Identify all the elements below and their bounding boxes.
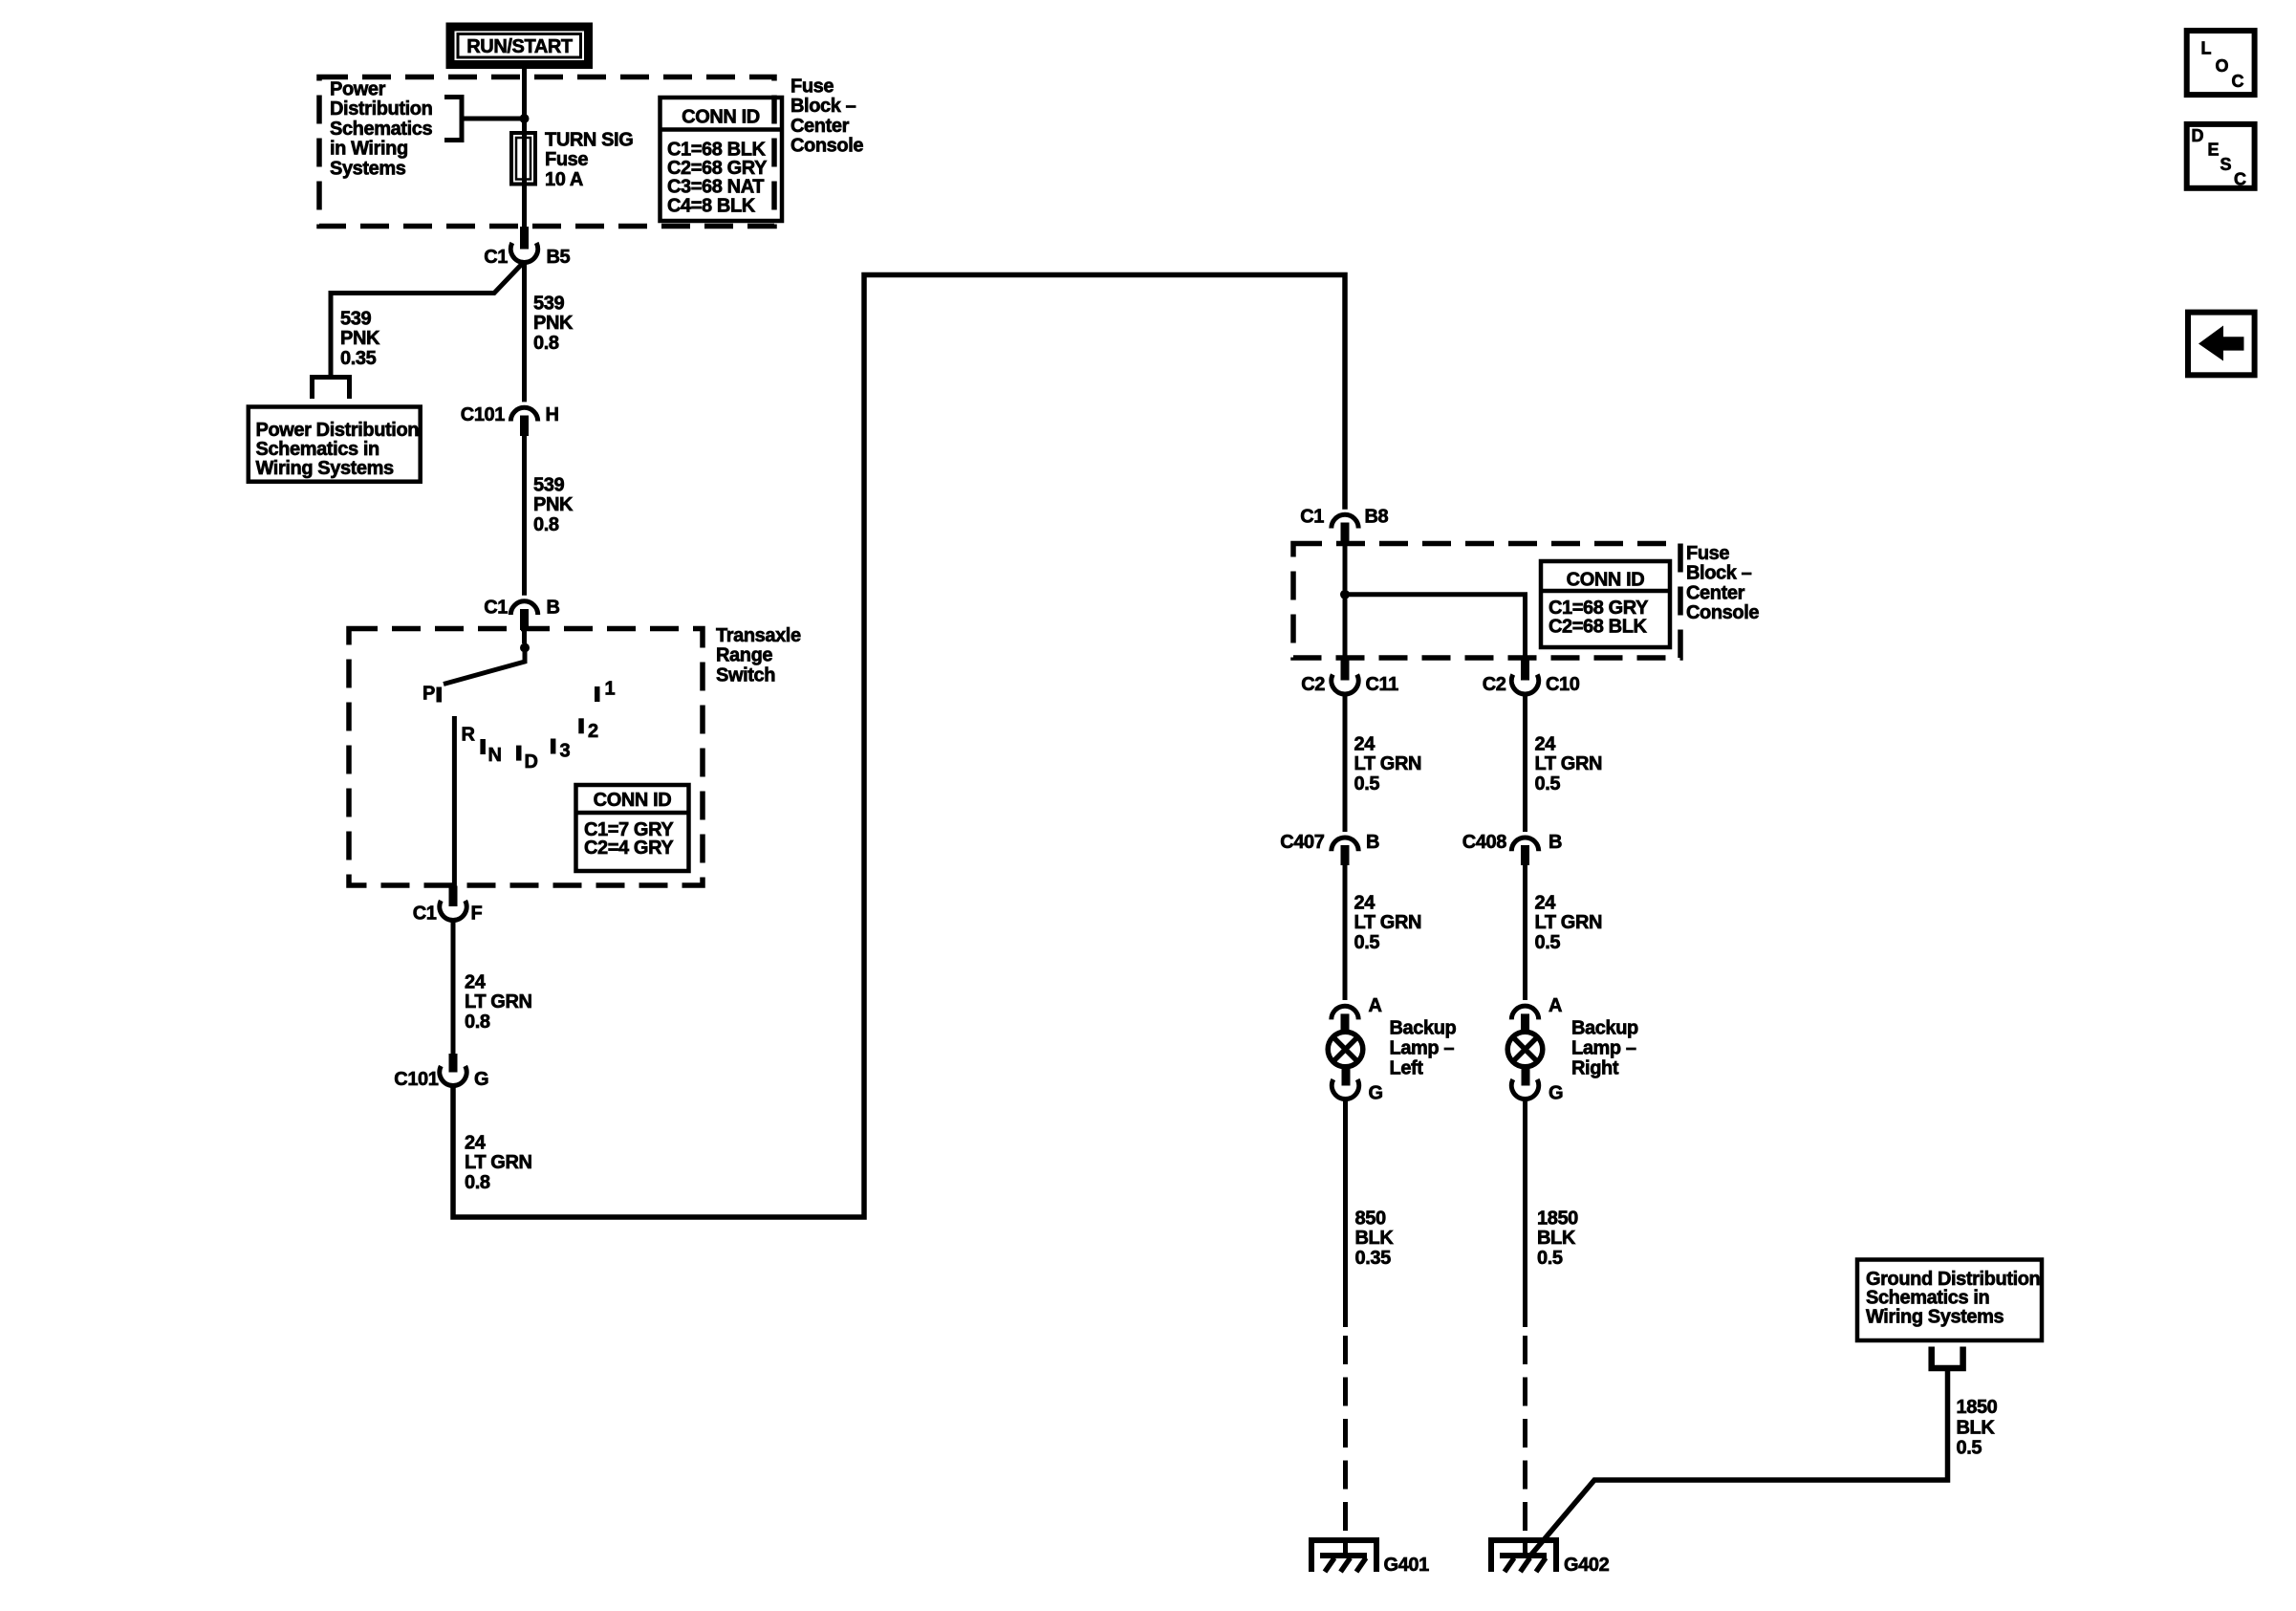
- svg-text:24: 24: [465, 972, 487, 993]
- contact P: [437, 687, 443, 703]
- svg-text:Block –: Block –: [791, 96, 856, 117]
- svg-text:Schematics in: Schematics in: [256, 439, 379, 460]
- contact N: [480, 739, 486, 754]
- svg-text:Transaxle: Transaxle: [716, 625, 801, 646]
- svg-text:Power: Power: [330, 79, 386, 100]
- svg-text:TURN SIG: TURN SIG: [545, 130, 633, 151]
- connector A left arc: [1332, 1006, 1358, 1019]
- power feed box RUN/START: [450, 27, 589, 65]
- svg-text:C2: C2: [1301, 674, 1325, 695]
- svg-text:B5: B5: [547, 247, 571, 268]
- svg-text:Console: Console: [791, 136, 863, 157]
- svg-text:0.35: 0.35: [340, 348, 377, 369]
- svg-text:539: 539: [340, 309, 371, 330]
- connector C101 H stub: [520, 416, 529, 437]
- reference box Power Distribution Schematics in Wiring Systems: [249, 407, 421, 482]
- svg-text:Console: Console: [1686, 602, 1759, 623]
- svg-text:Range: Range: [716, 645, 772, 666]
- svg-text:PNK: PNK: [340, 328, 380, 349]
- wire 1850 BLK 0.5 from ground distribution to G402: [1528, 1368, 1948, 1558]
- svg-text:LT GRN: LT GRN: [1535, 912, 1603, 933]
- svg-text:D: D: [2192, 126, 2204, 145]
- node junction dot at fuse feed: [520, 114, 530, 123]
- wire 1850 BLK solid G to splice right: [1523, 1098, 1527, 1328]
- svg-text:Distribution: Distribution: [330, 98, 432, 120]
- wire 24 LT GRN 0.5 C407 to lamp A: [1343, 865, 1348, 1000]
- svg-text:Lamp –: Lamp –: [1390, 1038, 1455, 1059]
- svg-text:Center: Center: [1686, 582, 1745, 603]
- connector C2 C10 arc: [1511, 675, 1538, 695]
- contact D: [516, 746, 522, 761]
- connector C408 B arc: [1511, 838, 1538, 851]
- svg-text:CONN ID: CONN ID: [1567, 570, 1645, 591]
- svg-text:G: G: [1549, 1083, 1563, 1104]
- svg-text:Backup: Backup: [1390, 1018, 1457, 1039]
- svg-text:24: 24: [1535, 893, 1557, 914]
- svg-text:G: G: [474, 1069, 488, 1090]
- long loop wire 24 LT GRN 0.8 to C1 B8: [453, 275, 1345, 1218]
- connector C1 B5 stub: [520, 227, 529, 250]
- svg-text:CONN ID: CONN ID: [594, 790, 672, 811]
- wire junction to power distribution lead-in: [462, 117, 525, 121]
- svg-text:Switch: Switch: [716, 664, 775, 686]
- wire into switch common: [522, 630, 527, 643]
- svg-text:BLK: BLK: [1957, 1417, 1996, 1438]
- svg-text:PNK: PNK: [533, 313, 574, 334]
- svg-text:0.5: 0.5: [1354, 773, 1380, 795]
- svg-text:0.8: 0.8: [465, 1172, 490, 1193]
- contact 1: [595, 686, 600, 702]
- svg-text:850: 850: [1355, 1208, 1386, 1230]
- svg-text:Lamp –: Lamp –: [1571, 1038, 1636, 1059]
- wire 850 BLK dashed to G401: [1343, 1336, 1348, 1557]
- connector C408 B stub: [1521, 845, 1529, 865]
- svg-text:0.5: 0.5: [1957, 1438, 1982, 1459]
- svg-text:H: H: [546, 404, 559, 425]
- connector A right stub: [1521, 1013, 1529, 1030]
- wire 539 PNK 0.8 C101 to C1 B: [522, 436, 527, 596]
- wire 24 LT GRN 0.5 C10 to C408: [1523, 692, 1527, 832]
- svg-text:0.8: 0.8: [533, 333, 559, 354]
- svg-text:N: N: [488, 745, 502, 766]
- connector C1 F stub: [449, 886, 458, 907]
- svg-text:Wiring Systems: Wiring Systems: [1866, 1306, 2004, 1327]
- svg-text:LT GRN: LT GRN: [1354, 912, 1422, 933]
- backup lamp left lower stub: [1342, 1067, 1351, 1086]
- connector A right arc: [1511, 1006, 1538, 1019]
- svg-text:539: 539: [533, 475, 564, 496]
- svg-text:0.5: 0.5: [1537, 1248, 1563, 1269]
- svg-text:24: 24: [1535, 734, 1557, 755]
- svg-text:Fuse: Fuse: [1686, 543, 1729, 564]
- svg-text:CONN ID: CONN ID: [682, 107, 760, 128]
- connector A left stub: [1341, 1013, 1350, 1030]
- svg-text:BLK: BLK: [1355, 1228, 1395, 1249]
- svg-text:10 A: 10 A: [545, 169, 583, 190]
- svg-text:LT GRN: LT GRN: [465, 991, 532, 1012]
- reference box Ground Distribution Schematics in Wiring Systems: [1857, 1260, 2042, 1341]
- CONN ID table fuse block top: [661, 98, 783, 221]
- connector C101 H arc: [510, 407, 537, 421]
- svg-text:C: C: [2234, 170, 2246, 189]
- svg-text:C10: C10: [1546, 674, 1580, 695]
- svg-text:Ground Distribution: Ground Distribution: [1866, 1269, 2040, 1290]
- node junction dot fuse block 2: [1340, 590, 1350, 599]
- switch wiper arm to P: [444, 651, 525, 685]
- connector C1 F arc: [440, 901, 466, 921]
- backup lamp right bulb: [1507, 1032, 1543, 1067]
- connector C1 B5 arc: [510, 243, 537, 263]
- svg-text:0.5: 0.5: [1535, 773, 1561, 795]
- svg-text:Schematics: Schematics: [330, 119, 432, 140]
- svg-text:PNK: PNK: [533, 494, 574, 515]
- wire 1850 BLK dashed to G402: [1523, 1336, 1527, 1557]
- breakout bracket ground distribution: [1932, 1347, 1963, 1369]
- CONN ID table transaxle: [576, 785, 689, 871]
- svg-text:D: D: [525, 751, 538, 773]
- svg-text:C4=8 BLK: C4=8 BLK: [667, 195, 756, 216]
- svg-text:Backup: Backup: [1571, 1018, 1638, 1039]
- wire junction branch to C2 C10: [1345, 595, 1526, 660]
- lead-in bracket power distribution schematics: [444, 98, 462, 141]
- svg-text:Left: Left: [1390, 1058, 1424, 1079]
- connector C2 C11 arc: [1332, 675, 1358, 695]
- svg-text:C2=4 GRY: C2=4 GRY: [584, 838, 674, 859]
- svg-text:0.8: 0.8: [465, 1012, 490, 1033]
- connector C1 B stub: [520, 609, 529, 630]
- connector C101 G stub: [449, 1054, 458, 1073]
- svg-text:Schematics in: Schematics in: [1866, 1288, 1989, 1309]
- connector C1 B arc: [510, 601, 537, 615]
- icon back arrow glyph: [2199, 326, 2244, 361]
- svg-text:C11: C11: [1366, 674, 1399, 695]
- svg-text:B: B: [1366, 832, 1379, 853]
- svg-text:0.8: 0.8: [533, 514, 559, 535]
- connector C407 B arc: [1332, 838, 1358, 851]
- wire 24 LT GRN 0.5 C11 to C407: [1343, 692, 1348, 832]
- svg-text:B: B: [547, 598, 560, 619]
- fuse TURN SIG 10 A: [511, 133, 535, 185]
- svg-text:2: 2: [588, 721, 598, 742]
- svg-text:C2=68 BLK: C2=68 BLK: [1549, 617, 1648, 638]
- CONN ID table fuse block 2: [1541, 561, 1670, 647]
- svg-text:in Wiring: in Wiring: [330, 139, 408, 160]
- backup lamp left bulb: [1328, 1032, 1363, 1067]
- svg-text:Right: Right: [1571, 1058, 1619, 1079]
- svg-text:RUN/START: RUN/START: [466, 36, 573, 57]
- svg-text:Block –: Block –: [1686, 563, 1752, 584]
- svg-text:A: A: [1369, 995, 1382, 1016]
- wire 24 LT GRN 0.8 C1F to C101G: [451, 919, 456, 1055]
- svg-text:C1: C1: [484, 598, 508, 619]
- svg-text:F: F: [471, 903, 483, 925]
- connector C1 B8 arc: [1332, 514, 1358, 528]
- wire junction to C2 C11: [1343, 599, 1348, 660]
- svg-text:539: 539: [533, 294, 564, 315]
- svg-text:G402: G402: [1564, 1555, 1610, 1576]
- connector C2 C10 stub: [1521, 660, 1529, 681]
- connector G right arc: [1511, 1079, 1538, 1099]
- connector G left arc: [1332, 1079, 1358, 1099]
- svg-text:B: B: [1549, 832, 1562, 853]
- wire branch 539 PNK 0.35: [331, 262, 525, 376]
- svg-text:E: E: [2208, 141, 2220, 160]
- contact 2: [578, 718, 584, 733]
- breakout bracket to power distribution box: [313, 378, 350, 400]
- svg-text:B8: B8: [1365, 507, 1389, 528]
- svg-text:L: L: [2201, 39, 2212, 58]
- svg-text:0.5: 0.5: [1535, 932, 1561, 953]
- backup lamp right lower stub: [1522, 1067, 1530, 1086]
- svg-text:C2: C2: [1483, 674, 1506, 695]
- svg-text:1850: 1850: [1957, 1397, 1998, 1418]
- svg-text:P: P: [422, 684, 435, 705]
- svg-text:0.5: 0.5: [1354, 932, 1380, 953]
- ground G401 symbol: [1309, 1537, 1379, 1572]
- contact 3: [551, 739, 556, 754]
- svg-text:Wiring Systems: Wiring Systems: [256, 458, 395, 479]
- connector C407 B stub: [1341, 845, 1350, 865]
- svg-text:C408: C408: [1462, 832, 1506, 853]
- svg-text:BLK: BLK: [1537, 1228, 1576, 1249]
- fuse block - center console dashed box 2: [1293, 544, 1680, 659]
- svg-text:24: 24: [1354, 893, 1376, 914]
- wire 850 BLK solid G to splice left: [1343, 1098, 1348, 1328]
- connector C101 G arc: [440, 1066, 466, 1086]
- contact R wire down to C1 F: [452, 716, 457, 886]
- svg-text:LT GRN: LT GRN: [1535, 753, 1603, 774]
- svg-text:O: O: [2216, 56, 2229, 76]
- svg-text:C1: C1: [1300, 507, 1324, 528]
- svg-text:C: C: [2232, 72, 2244, 91]
- svg-text:Fuse: Fuse: [791, 76, 834, 98]
- svg-text:24: 24: [1354, 734, 1376, 755]
- transaxle range switch dashed box: [349, 629, 703, 886]
- svg-text:LT GRN: LT GRN: [1354, 753, 1422, 774]
- wire RUN/START down through fuse: [522, 69, 527, 227]
- svg-text:24: 24: [465, 1133, 487, 1154]
- fuse block - center console dashed box: [319, 77, 774, 227]
- svg-text:Center: Center: [791, 116, 850, 137]
- svg-text:LT GRN: LT GRN: [465, 1152, 532, 1173]
- svg-text:3: 3: [560, 741, 571, 762]
- svg-text:A: A: [1549, 995, 1562, 1016]
- svg-text:C101: C101: [394, 1069, 438, 1090]
- svg-text:C407: C407: [1280, 832, 1324, 853]
- wire B8 stub to junction: [1343, 543, 1348, 590]
- svg-text:C1: C1: [484, 247, 508, 268]
- svg-text:G401: G401: [1384, 1555, 1430, 1576]
- svg-text:Power Distribution: Power Distribution: [256, 420, 420, 441]
- connector C2 C11 stub: [1341, 660, 1350, 681]
- svg-text:1: 1: [605, 679, 616, 700]
- svg-text:C1: C1: [413, 903, 437, 925]
- svg-text:0.35: 0.35: [1355, 1248, 1392, 1269]
- icon back arrow box: [2188, 313, 2255, 376]
- node switch common junction dot: [520, 643, 530, 653]
- svg-text:Systems: Systems: [330, 158, 406, 179]
- ground G402 symbol: [1488, 1537, 1559, 1572]
- icon LOC box: [2187, 31, 2255, 95]
- wire 539 PNK 0.8 B5 to C101: [522, 260, 527, 402]
- connector C1 B8 stub: [1341, 523, 1350, 544]
- svg-text:C101: C101: [461, 404, 505, 425]
- wire 24 LT GRN 0.5 C408 to lamp A: [1523, 865, 1527, 1000]
- icon DESC box: [2187, 124, 2255, 188]
- svg-text:Fuse: Fuse: [545, 149, 588, 170]
- svg-text:1850: 1850: [1537, 1208, 1578, 1230]
- svg-text:R: R: [462, 725, 476, 746]
- svg-text:G: G: [1369, 1083, 1383, 1104]
- svg-text:S: S: [2220, 155, 2232, 174]
